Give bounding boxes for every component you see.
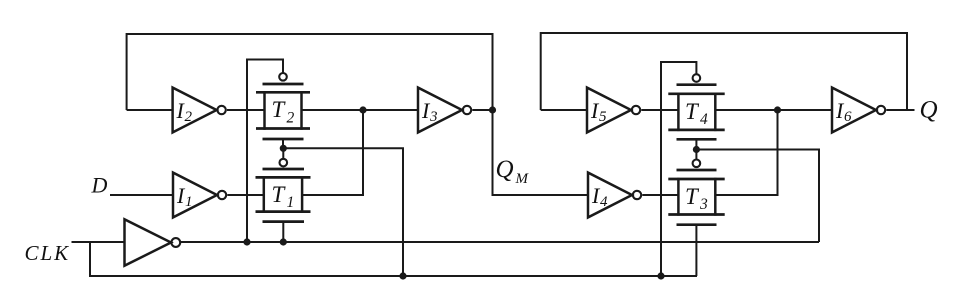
wire node down to T3 bubble [695, 150, 697, 160]
node dot T2-bottom/T1-top gate node [280, 145, 287, 152]
svg-text:6: 6 [844, 109, 852, 125]
node dot QM feedback junction [489, 106, 496, 113]
wire I2 input [127, 109, 173, 111]
op-amp inverter I4 [588, 173, 641, 218]
svg-text:Q: Q [920, 97, 938, 124]
wire T2 bottom gate stub [282, 139, 284, 148]
wire T4 bottom gate stub [695, 139, 697, 149]
wire gate node right and down to clkbar rail [696, 150, 819, 243]
svg-text:M: M [515, 171, 530, 187]
op-amp inverter I3 [418, 88, 471, 133]
wire T3 output up to node [715, 110, 777, 195]
node dot T4/T3 outputs join [774, 106, 781, 113]
node QM label [496, 156, 530, 187]
wire I1 output to T1 [227, 194, 264, 196]
node dot T2/T1 outputs join [359, 106, 366, 113]
op-amp inverter I2 [173, 88, 226, 133]
svg-text:T: T [685, 99, 700, 124]
op-amp inverter I5 [587, 88, 640, 133]
wire T4 gate bubble to CLK riser [661, 62, 696, 276]
wire T1 bottom gate stub to clkbar line [282, 222, 284, 242]
node dot CLK rail to gate-node riser [399, 272, 406, 279]
wire gate node right and down to CLK line [283, 148, 403, 276]
wire QM down and right to I4 [493, 110, 589, 195]
op-amp inverter I6 [832, 88, 885, 133]
svg-text:T: T [272, 97, 287, 122]
svg-text:1: 1 [185, 194, 193, 210]
wire I3 output to feedback node [472, 109, 492, 111]
node dot CLK rail to T4 riser [657, 272, 664, 279]
wire T2 gate bubble to clkbar riser [247, 60, 283, 243]
op-amp CLK inverter [125, 219, 181, 265]
svg-text:T: T [272, 182, 287, 207]
node dot clkbar to T2 riser [243, 238, 250, 245]
transmission gate T3 [668, 160, 724, 225]
wire CLKbar rail [180, 241, 819, 243]
wire slave feedback loop top [541, 33, 907, 110]
wire I5 input [541, 109, 587, 111]
svg-text:T: T [685, 184, 700, 209]
transmission gate T4 [668, 74, 724, 139]
svg-text:3: 3 [699, 196, 708, 213]
svg-text:Q: Q [496, 156, 514, 183]
wire master feedback loop top [127, 34, 493, 110]
transmission gate T2 [256, 73, 310, 139]
wire I6 output to Q [886, 109, 914, 111]
svg-text:2: 2 [287, 109, 295, 126]
svg-text:4: 4 [700, 111, 708, 128]
svg-text:1: 1 [287, 194, 295, 211]
wire T4 output to I6 [715, 109, 832, 111]
svg-text:CLK: CLK [25, 241, 71, 265]
svg-text:4: 4 [600, 194, 608, 210]
wire T1 output up to node [302, 110, 363, 195]
wire T3 bottom gate stub to CLK rail [695, 225, 697, 276]
wire T2 output to I3 [302, 109, 419, 111]
svg-text:3: 3 [429, 109, 438, 125]
node dot T4-bottom/T3-top gate node [693, 146, 700, 153]
wire I2 output to T2 [227, 109, 265, 111]
svg-text:D: D [91, 173, 108, 198]
wire node down to T1 bubble [282, 148, 284, 159]
wire CLK input [72, 241, 125, 243]
wire I4 output to T3 [642, 194, 678, 196]
op-amp inverter I1 [173, 173, 226, 218]
node dot clkbar to T1 stub [280, 238, 287, 245]
wire I5 output to T4 [641, 109, 678, 111]
wire D to I1 [110, 194, 173, 196]
svg-text:5: 5 [599, 109, 607, 125]
transmission gate T1 [256, 159, 311, 222]
svg-text:2: 2 [185, 109, 193, 125]
wire CLK branch down to bottom rail [90, 242, 697, 276]
